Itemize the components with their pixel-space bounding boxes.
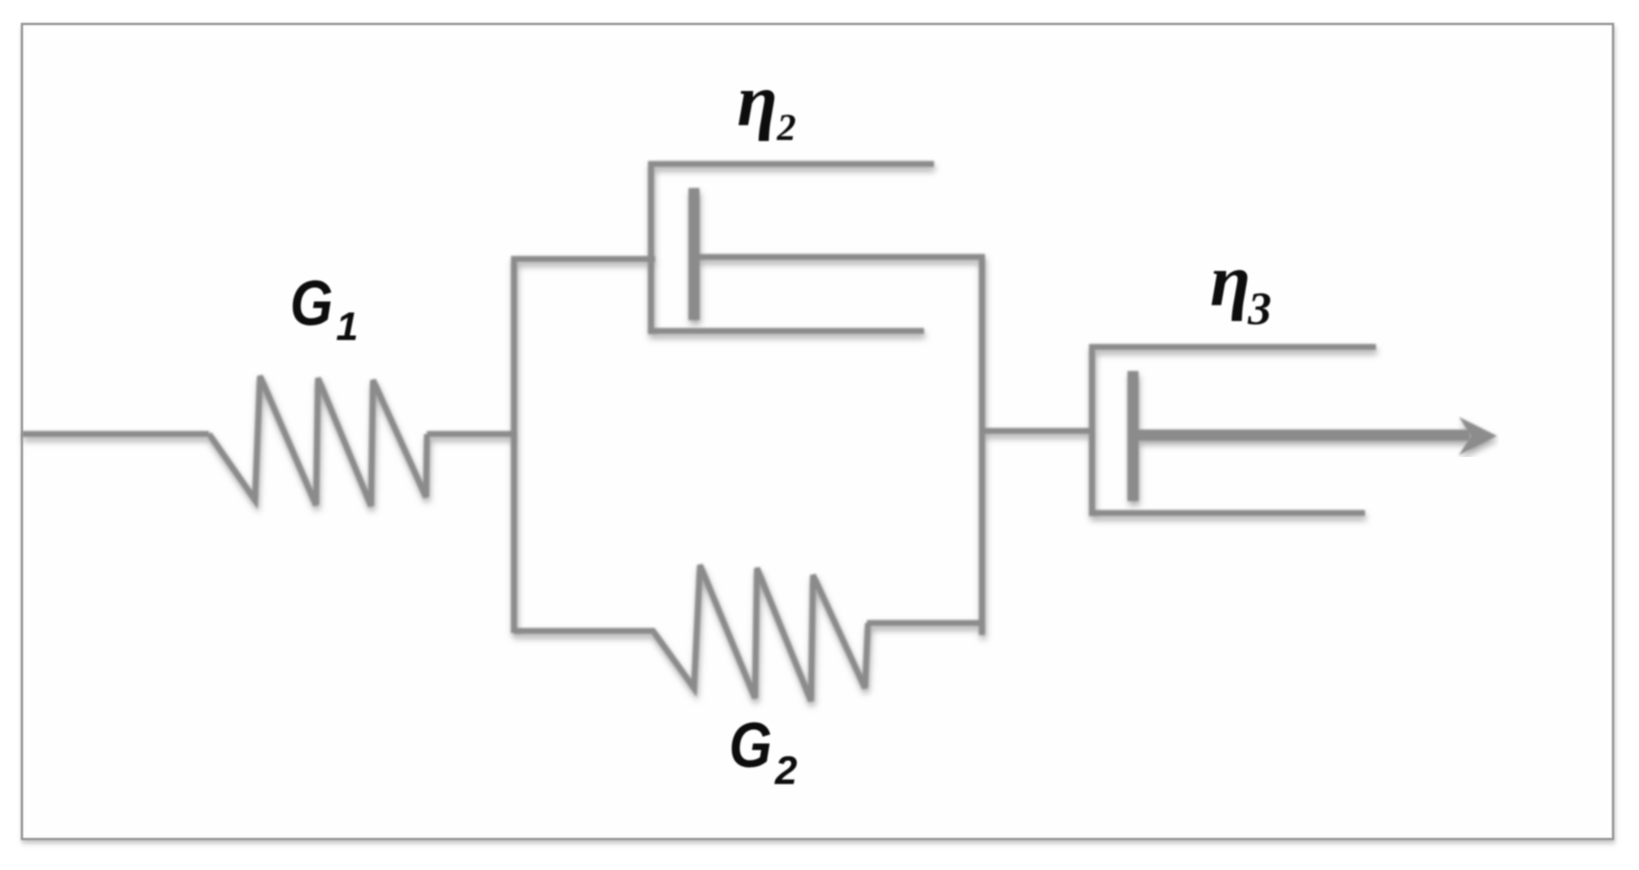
svg-text:G: G bbox=[290, 267, 333, 339]
svg-text:1: 1 bbox=[336, 305, 358, 349]
svg-text:3: 3 bbox=[1247, 283, 1272, 335]
svg-text:η: η bbox=[737, 60, 778, 142]
svg-text:2: 2 bbox=[776, 107, 796, 149]
svg-text:G: G bbox=[729, 709, 772, 781]
svg-text:η: η bbox=[1210, 240, 1251, 322]
svg-text:2: 2 bbox=[774, 749, 797, 793]
